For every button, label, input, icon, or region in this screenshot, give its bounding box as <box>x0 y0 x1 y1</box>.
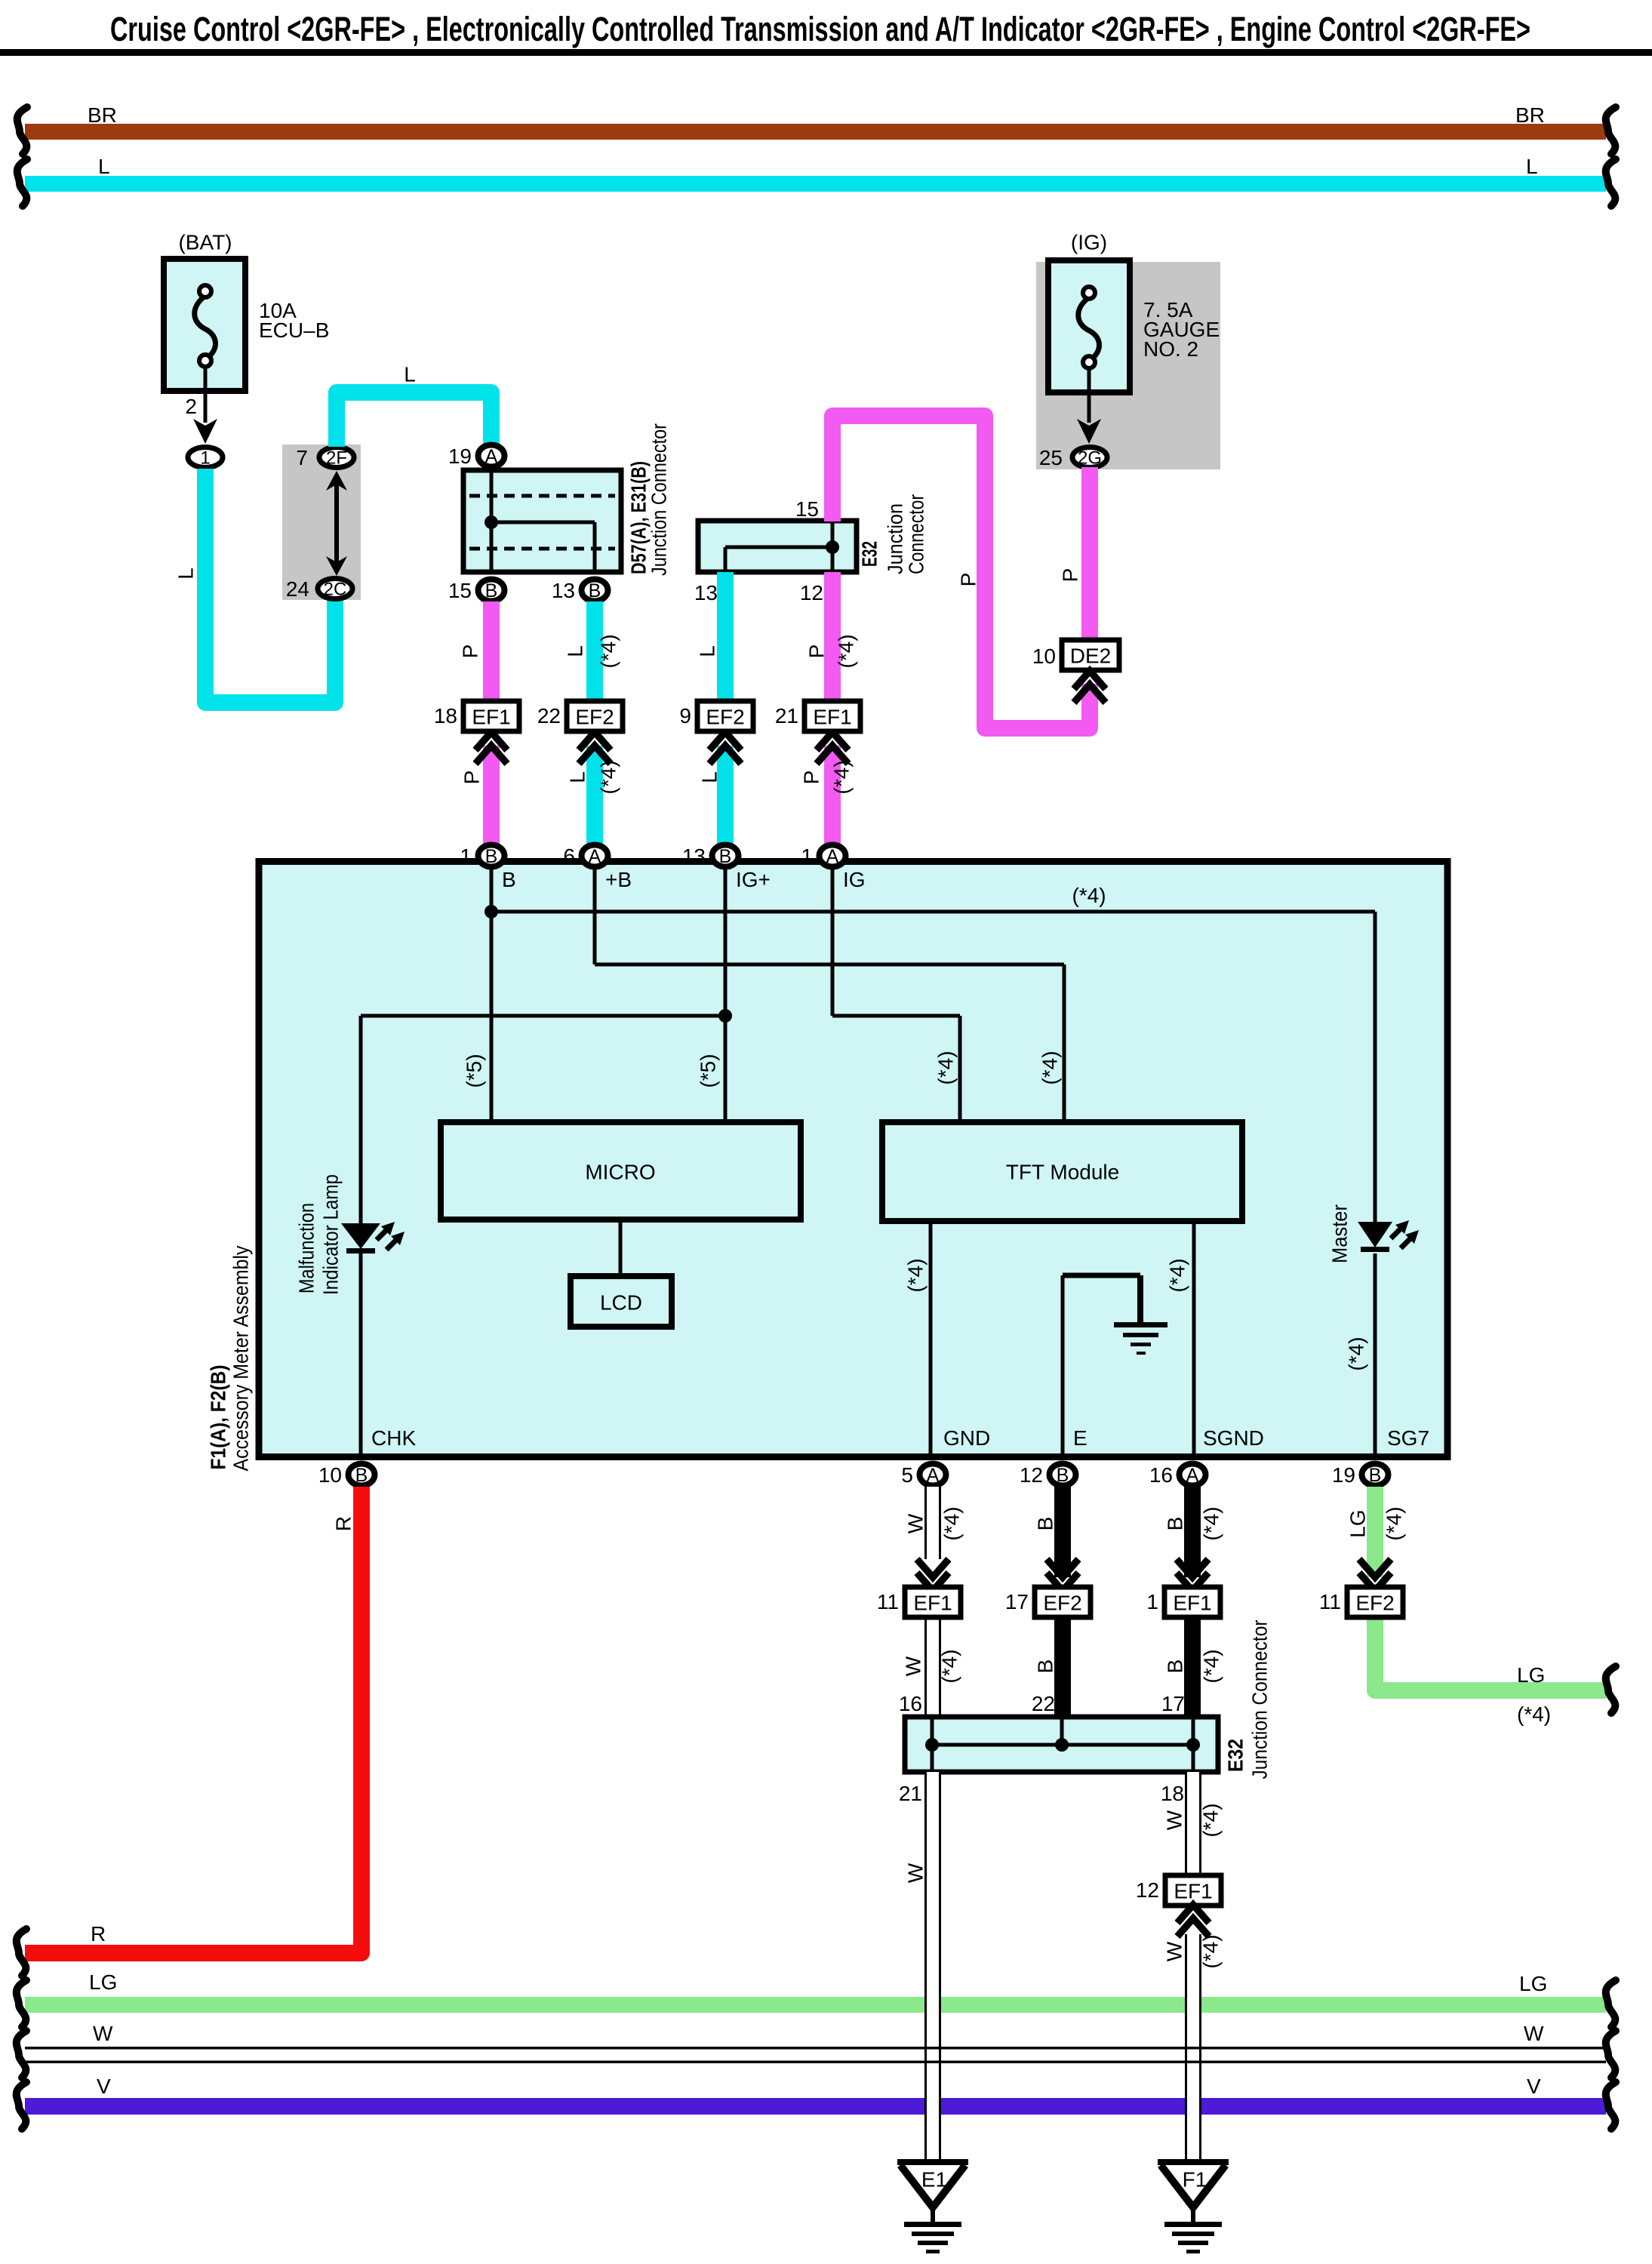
svg-text:L: L <box>98 155 110 178</box>
svg-text:Junction: Junction <box>884 503 907 574</box>
svg-text:A: A <box>1186 1465 1199 1486</box>
svg-text:EF1: EF1 <box>913 1592 952 1615</box>
svg-text:L: L <box>174 568 198 580</box>
svg-text:B: B <box>589 580 601 601</box>
svg-text:1: 1 <box>460 844 472 868</box>
svg-text:LG: LG <box>1346 1509 1370 1537</box>
svg-text:(*4): (*4) <box>1383 1506 1406 1540</box>
svg-text:Indicator Lamp: Indicator Lamp <box>319 1174 343 1295</box>
svg-text:5: 5 <box>901 1463 913 1487</box>
svg-text:MICRO: MICRO <box>585 1161 655 1184</box>
svg-text:ECU–B: ECU–B <box>259 318 329 342</box>
svg-text:(*4): (*4) <box>597 760 620 794</box>
svg-text:P: P <box>805 644 829 659</box>
svg-text:10: 10 <box>1032 644 1056 668</box>
svg-text:19: 19 <box>1332 1463 1355 1487</box>
svg-text:P: P <box>459 644 482 659</box>
svg-text:B: B <box>485 580 498 601</box>
svg-text:11: 11 <box>877 1590 899 1613</box>
svg-text:(*4): (*4) <box>904 1258 928 1292</box>
svg-text:17: 17 <box>1161 1692 1185 1715</box>
svg-text:13: 13 <box>552 579 575 602</box>
svg-text:IG+: IG+ <box>736 868 771 891</box>
svg-text:NO. 2: NO. 2 <box>1143 337 1198 361</box>
svg-text:B: B <box>1369 1465 1382 1486</box>
svg-text:W: W <box>1163 1941 1186 1961</box>
svg-text:15: 15 <box>448 579 472 602</box>
svg-text:EF2: EF2 <box>706 706 744 729</box>
svg-text:22: 22 <box>537 704 561 727</box>
svg-text:L: L <box>696 645 719 657</box>
svg-text:Junction Connector: Junction Connector <box>648 423 671 576</box>
svg-text:(*4): (*4) <box>597 634 620 668</box>
svg-text:Cruise Control <2GR-FE> , Elec: Cruise Control <2GR-FE> , Electronically… <box>110 10 1530 48</box>
svg-text:B: B <box>502 868 516 891</box>
svg-text:B: B <box>1164 1517 1187 1531</box>
svg-text:21: 21 <box>775 704 798 727</box>
svg-text:EF2: EF2 <box>1043 1592 1081 1615</box>
svg-text:A: A <box>485 446 498 467</box>
svg-text:(*4): (*4) <box>1199 1934 1223 1968</box>
svg-text:7: 7 <box>296 446 308 469</box>
svg-text:(*4): (*4) <box>1038 1050 1062 1084</box>
svg-text:BR: BR <box>88 103 117 127</box>
svg-text:(*4): (*4) <box>1517 1703 1551 1726</box>
svg-text:19: 19 <box>448 444 472 468</box>
svg-text:16: 16 <box>899 1692 922 1715</box>
svg-text:L: L <box>566 771 589 783</box>
svg-text:P: P <box>800 771 823 785</box>
svg-text:W: W <box>93 2022 113 2045</box>
svg-text:B: B <box>719 846 732 867</box>
svg-text:E32: E32 <box>858 541 881 567</box>
svg-text:LCD: LCD <box>600 1291 642 1315</box>
svg-text:R: R <box>91 1922 106 1946</box>
svg-text:EF2: EF2 <box>575 706 614 729</box>
svg-text:(*4): (*4) <box>835 634 858 668</box>
svg-text:1: 1 <box>1146 1590 1158 1613</box>
svg-text:W: W <box>1163 1810 1186 1830</box>
svg-text:2C: 2C <box>324 580 347 600</box>
svg-text:IG: IG <box>843 868 866 891</box>
svg-text:9: 9 <box>679 704 691 727</box>
svg-text:E32: E32 <box>1224 1739 1247 1772</box>
svg-text:BR: BR <box>1515 103 1545 127</box>
svg-text:L: L <box>404 363 416 386</box>
svg-text:E1: E1 <box>921 2168 947 2192</box>
svg-text:E: E <box>1073 1426 1087 1450</box>
svg-text:B: B <box>355 1465 368 1486</box>
svg-text:2G: 2G <box>1078 448 1102 469</box>
svg-text:W: W <box>1524 2022 1544 2045</box>
svg-text:(IG): (IG) <box>1071 231 1107 254</box>
svg-text:Master: Master <box>1328 1204 1352 1263</box>
svg-text:11: 11 <box>1319 1590 1341 1613</box>
svg-text:EF1: EF1 <box>1173 1592 1211 1615</box>
svg-text:13: 13 <box>694 581 718 604</box>
svg-text:L: L <box>1526 155 1538 178</box>
svg-text:12: 12 <box>1020 1463 1043 1487</box>
svg-text:18: 18 <box>1161 1782 1184 1805</box>
svg-text:(*4): (*4) <box>934 1050 958 1084</box>
svg-text:EF2: EF2 <box>1355 1592 1394 1615</box>
svg-text:1: 1 <box>801 844 813 868</box>
svg-text:LG: LG <box>1519 1972 1547 1995</box>
svg-text:F1: F1 <box>1183 2168 1207 2192</box>
svg-text:(BAT): (BAT) <box>178 231 232 254</box>
svg-text:12: 12 <box>1136 1878 1159 1902</box>
svg-text:CHK: CHK <box>371 1426 416 1450</box>
svg-text:Malfunction: Malfunction <box>295 1203 318 1293</box>
svg-text:13: 13 <box>682 844 706 868</box>
svg-text:(*5): (*5) <box>463 1054 486 1087</box>
svg-text:V: V <box>97 2075 111 2098</box>
svg-text:(*4): (*4) <box>1199 1803 1223 1837</box>
svg-text:B: B <box>1164 1660 1187 1674</box>
svg-text:EF1: EF1 <box>813 706 851 729</box>
svg-text:16: 16 <box>1149 1463 1173 1487</box>
svg-text:B: B <box>485 846 498 867</box>
svg-text:+B: +B <box>605 868 632 891</box>
svg-text:W: W <box>904 1863 928 1883</box>
svg-text:2: 2 <box>185 395 197 418</box>
svg-text:B: B <box>1057 1465 1069 1486</box>
svg-text:V: V <box>1527 2075 1541 2098</box>
svg-text:F1(A), F2(B): F1(A), F2(B) <box>207 1365 230 1470</box>
svg-text:(*4): (*4) <box>1166 1258 1189 1292</box>
svg-text:22: 22 <box>1032 1692 1055 1715</box>
svg-text:(*4): (*4) <box>1200 1506 1223 1540</box>
svg-text:L: L <box>564 645 587 657</box>
svg-text:LG: LG <box>1517 1663 1545 1687</box>
svg-text:W: W <box>902 1656 925 1676</box>
svg-text:(*5): (*5) <box>697 1054 720 1087</box>
svg-text:21: 21 <box>899 1782 922 1805</box>
svg-text:P: P <box>1059 568 1082 583</box>
svg-text:12: 12 <box>800 581 823 604</box>
svg-text:EF1: EF1 <box>472 706 510 729</box>
svg-text:(*4): (*4) <box>940 1506 964 1540</box>
svg-text:SG7: SG7 <box>1387 1426 1429 1450</box>
svg-text:B: B <box>1034 1660 1057 1674</box>
svg-text:(*4): (*4) <box>938 1649 961 1683</box>
svg-text:(*4): (*4) <box>1200 1649 1223 1683</box>
svg-text:P: P <box>957 573 980 587</box>
svg-text:Connector: Connector <box>905 494 928 574</box>
svg-text:LG: LG <box>89 1970 117 1994</box>
svg-text:18: 18 <box>434 704 457 727</box>
svg-text:A: A <box>826 846 839 867</box>
svg-text:R: R <box>332 1516 355 1531</box>
svg-text:A: A <box>927 1465 940 1486</box>
svg-text:6: 6 <box>563 844 575 868</box>
svg-text:1: 1 <box>200 448 210 469</box>
svg-text:(*4): (*4) <box>1072 884 1106 907</box>
svg-text:25: 25 <box>1039 446 1063 469</box>
svg-text:Junction Connector: Junction Connector <box>1248 1620 1272 1780</box>
svg-text:L: L <box>698 771 721 783</box>
svg-text:(*4): (*4) <box>1345 1337 1368 1370</box>
svg-text:24: 24 <box>286 577 309 601</box>
svg-text:DE2: DE2 <box>1070 644 1111 668</box>
svg-text:B: B <box>1034 1517 1057 1531</box>
svg-text:SGND: SGND <box>1203 1426 1264 1450</box>
svg-text:TFT Module: TFT Module <box>1006 1161 1119 1184</box>
svg-text:2F: 2F <box>326 448 347 469</box>
svg-text:Accessory Meter Assembly: Accessory Meter Assembly <box>229 1246 253 1472</box>
svg-text:P: P <box>460 771 484 785</box>
svg-text:10: 10 <box>318 1463 342 1487</box>
svg-text:(*4): (*4) <box>830 760 854 794</box>
svg-text:A: A <box>589 846 601 867</box>
svg-text:17: 17 <box>1005 1590 1029 1613</box>
svg-text:GND: GND <box>943 1426 990 1450</box>
svg-text:W: W <box>904 1513 928 1533</box>
svg-text:15: 15 <box>795 497 819 521</box>
